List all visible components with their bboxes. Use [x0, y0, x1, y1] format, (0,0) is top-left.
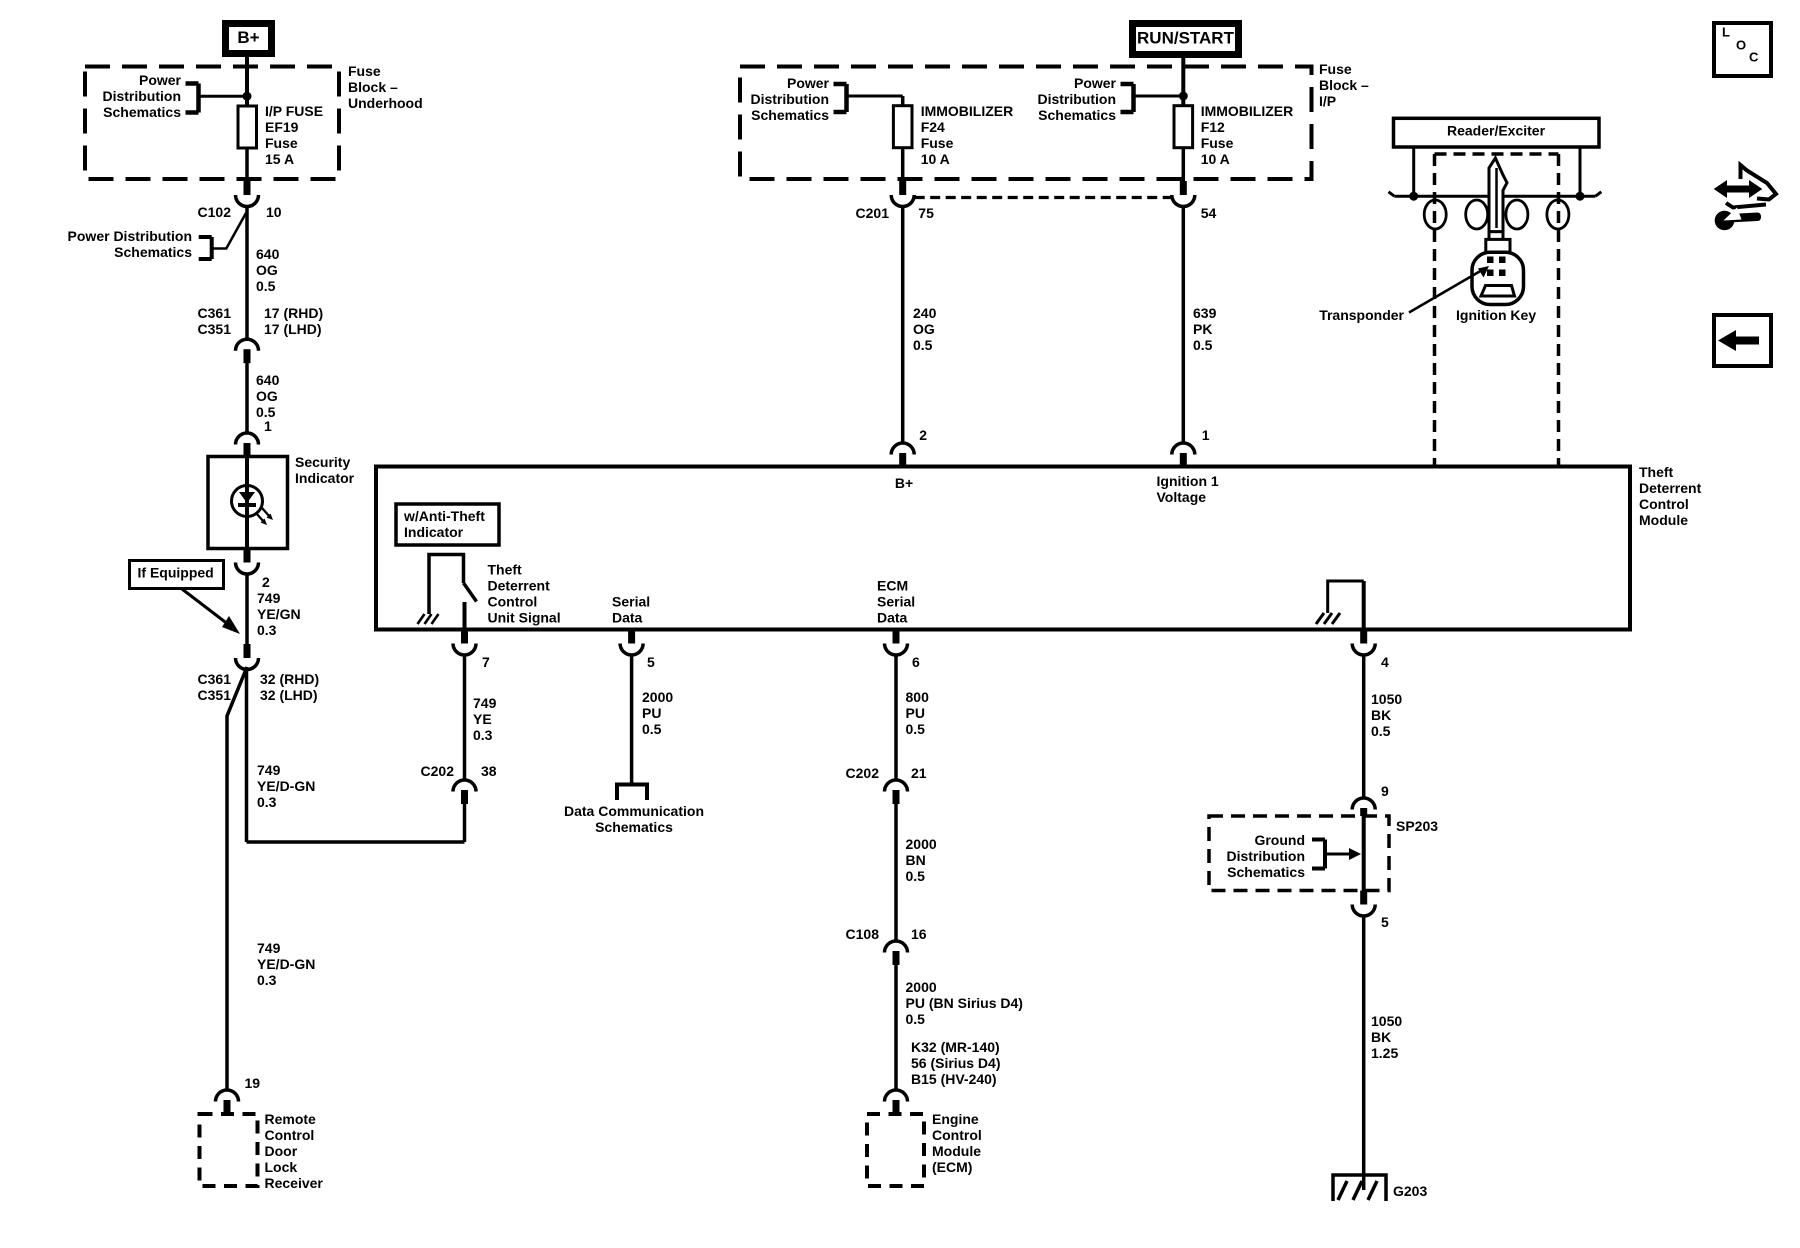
svg-text:Distribution: Distribution — [1226, 848, 1305, 864]
svg-text:749: 749 — [257, 590, 281, 606]
svg-text:19: 19 — [245, 1075, 261, 1091]
svg-text:17 (RHD): 17 (RHD) — [264, 305, 323, 321]
svg-text:Data: Data — [877, 610, 908, 626]
svg-text:B15 (HV-240): B15 (HV-240) — [911, 1071, 997, 1087]
svg-text:YE/D-GN: YE/D-GN — [257, 956, 315, 972]
svg-text:Ground: Ground — [1254, 832, 1305, 848]
svg-text:Schematics: Schematics — [1227, 864, 1305, 880]
svg-text:C202: C202 — [846, 765, 880, 781]
svg-text:BK: BK — [1371, 707, 1391, 723]
svg-text:56 (Sirius D4): 56 (Sirius D4) — [911, 1055, 1000, 1071]
svg-text:Power Distribution: Power Distribution — [68, 228, 192, 244]
svg-text:SP203: SP203 — [1396, 818, 1438, 834]
svg-text:YE: YE — [473, 711, 492, 727]
svg-text:2000: 2000 — [642, 689, 673, 705]
svg-text:Transponder: Transponder — [1319, 307, 1404, 323]
svg-text:RUN/START: RUN/START — [1137, 29, 1235, 48]
svg-text:5: 5 — [1381, 914, 1389, 930]
svg-text:749: 749 — [257, 762, 281, 778]
svg-text:Control: Control — [932, 1127, 982, 1143]
svg-text:9: 9 — [1381, 783, 1389, 799]
svg-text:Control: Control — [265, 1127, 315, 1143]
svg-text:10: 10 — [266, 204, 282, 220]
svg-text:Unit Signal: Unit Signal — [488, 610, 561, 626]
svg-text:Ignition Key: Ignition Key — [1456, 307, 1536, 323]
svg-text:Remote: Remote — [265, 1111, 317, 1127]
svg-text:Data Communication: Data Communication — [564, 803, 704, 819]
svg-text:0.5: 0.5 — [913, 337, 933, 353]
svg-text:C202: C202 — [421, 763, 455, 779]
svg-text:Fuse: Fuse — [921, 135, 954, 151]
svg-text:2: 2 — [919, 427, 927, 443]
svg-text:Schematics: Schematics — [114, 244, 192, 260]
svg-text:54: 54 — [1201, 205, 1217, 221]
svg-text:Theft: Theft — [488, 562, 523, 578]
svg-text:7: 7 — [482, 654, 490, 670]
svg-text:1: 1 — [264, 418, 272, 434]
svg-text:Engine: Engine — [932, 1111, 979, 1127]
svg-text:Control: Control — [488, 594, 538, 610]
svg-text:6: 6 — [912, 654, 920, 670]
svg-text:Deterrent: Deterrent — [1639, 480, 1702, 496]
svg-text:Fuse: Fuse — [265, 135, 298, 151]
svg-text:0.3: 0.3 — [473, 727, 493, 743]
svg-text:0.5: 0.5 — [1371, 723, 1391, 739]
svg-text:C102: C102 — [198, 204, 232, 220]
svg-text:BN: BN — [906, 852, 926, 868]
svg-text:17 (LHD): 17 (LHD) — [264, 321, 322, 337]
svg-text:Security: Security — [295, 454, 350, 470]
svg-text:Power: Power — [139, 72, 182, 88]
svg-text:Module: Module — [932, 1143, 981, 1159]
svg-text:Power: Power — [787, 75, 830, 91]
svg-text:0.3: 0.3 — [257, 972, 277, 988]
svg-text:Distribution: Distribution — [1037, 91, 1116, 107]
svg-text:0.5: 0.5 — [906, 868, 926, 884]
svg-text:C351: C351 — [198, 687, 232, 703]
svg-text:I/P FUSE: I/P FUSE — [265, 103, 323, 119]
svg-text:Fuse: Fuse — [1201, 135, 1234, 151]
svg-text:YE/GN: YE/GN — [257, 606, 301, 622]
svg-text:OG: OG — [256, 388, 278, 404]
svg-text:OG: OG — [913, 321, 935, 337]
svg-text:(ECM): (ECM) — [932, 1159, 972, 1175]
svg-text:Module: Module — [1639, 512, 1688, 528]
svg-text:0.3: 0.3 — [257, 622, 277, 638]
svg-text:Schematics: Schematics — [1038, 107, 1116, 123]
svg-text:G203: G203 — [1393, 1183, 1427, 1199]
svg-text:Serial: Serial — [612, 594, 650, 610]
svg-text:B+: B+ — [237, 28, 259, 47]
svg-text:Indicator: Indicator — [295, 470, 355, 486]
svg-text:Schematics: Schematics — [751, 107, 829, 123]
svg-text:4: 4 — [1381, 654, 1389, 670]
svg-text:0.5: 0.5 — [1193, 337, 1213, 353]
svg-text:640: 640 — [256, 372, 280, 388]
svg-text:240: 240 — [913, 305, 937, 321]
svg-text:F24: F24 — [921, 119, 945, 135]
svg-text:C361: C361 — [198, 305, 232, 321]
svg-text:C351: C351 — [198, 321, 232, 337]
svg-text:I/P: I/P — [1319, 93, 1336, 109]
svg-text:749: 749 — [473, 695, 497, 711]
svg-text:C108: C108 — [846, 926, 880, 942]
svg-text:PK: PK — [1193, 321, 1212, 337]
svg-text:0.5: 0.5 — [256, 278, 276, 294]
svg-text:Door: Door — [265, 1143, 298, 1159]
svg-text:32 (RHD): 32 (RHD) — [260, 671, 319, 687]
svg-text:75: 75 — [918, 205, 934, 221]
svg-text:BK: BK — [1371, 1029, 1391, 1045]
svg-text:21: 21 — [911, 765, 927, 781]
svg-text:If Equipped: If Equipped — [138, 565, 214, 581]
svg-text:Indicator: Indicator — [404, 524, 464, 540]
svg-text:1050: 1050 — [1371, 691, 1402, 707]
svg-text:749: 749 — [257, 940, 281, 956]
svg-text:15 A: 15 A — [265, 151, 294, 167]
svg-text:Voltage: Voltage — [1157, 489, 1207, 505]
svg-text:Distribution: Distribution — [750, 91, 829, 107]
svg-text:w/Anti-Theft: w/Anti-Theft — [403, 508, 485, 524]
svg-text:Underhood: Underhood — [348, 95, 423, 111]
svg-text:Deterrent: Deterrent — [488, 578, 551, 594]
svg-text:K32 (MR-140): K32 (MR-140) — [911, 1039, 1000, 1055]
svg-text:C: C — [1749, 49, 1759, 64]
svg-text:Lock: Lock — [265, 1159, 298, 1175]
svg-text:639: 639 — [1193, 305, 1217, 321]
svg-text:Reader/Exciter: Reader/Exciter — [1447, 123, 1546, 139]
svg-text:5: 5 — [647, 654, 655, 670]
svg-text:0.3: 0.3 — [257, 794, 277, 810]
svg-text:Fuse: Fuse — [1319, 61, 1352, 77]
svg-text:16: 16 — [911, 926, 927, 942]
svg-text:O: O — [1736, 37, 1746, 52]
svg-text:PU (BN Sirius D4): PU (BN Sirius D4) — [906, 995, 1023, 1011]
svg-text:38: 38 — [481, 763, 497, 779]
svg-text:1: 1 — [1202, 427, 1210, 443]
svg-text:2000: 2000 — [906, 979, 937, 995]
svg-text:1.25: 1.25 — [1371, 1045, 1398, 1061]
svg-text:Fuse: Fuse — [348, 63, 381, 79]
svg-text:2: 2 — [262, 574, 270, 590]
svg-text:EF19: EF19 — [265, 119, 299, 135]
svg-text:F12: F12 — [1201, 119, 1225, 135]
svg-text:L: L — [1722, 24, 1730, 39]
svg-text:ECM: ECM — [877, 578, 908, 594]
svg-text:C361: C361 — [198, 671, 232, 687]
svg-text:800: 800 — [906, 689, 930, 705]
svg-text:Serial: Serial — [877, 594, 915, 610]
svg-text:Schematics: Schematics — [595, 819, 673, 835]
svg-text:1050: 1050 — [1371, 1013, 1402, 1029]
svg-text:32 (LHD): 32 (LHD) — [260, 687, 318, 703]
svg-text:IMMOBILIZER: IMMOBILIZER — [921, 103, 1014, 119]
svg-text:2000: 2000 — [906, 836, 937, 852]
svg-text:Theft: Theft — [1639, 464, 1674, 480]
svg-text:Power: Power — [1074, 75, 1117, 91]
svg-text:PU: PU — [906, 705, 925, 721]
svg-text:B+: B+ — [895, 475, 913, 491]
svg-text:Block –: Block – — [1319, 77, 1369, 93]
svg-text:10 A: 10 A — [1201, 151, 1230, 167]
svg-text:Data: Data — [612, 610, 643, 626]
svg-text:Distribution: Distribution — [102, 88, 181, 104]
svg-text:0.5: 0.5 — [906, 721, 926, 737]
svg-text:0.5: 0.5 — [642, 721, 662, 737]
svg-text:0.5: 0.5 — [906, 1011, 926, 1027]
svg-text:C201: C201 — [856, 205, 890, 221]
svg-text:Schematics: Schematics — [103, 104, 181, 120]
svg-text:YE/D-GN: YE/D-GN — [257, 778, 315, 794]
svg-text:OG: OG — [256, 262, 278, 278]
svg-text:10 A: 10 A — [921, 151, 950, 167]
svg-text:640: 640 — [256, 246, 280, 262]
svg-text:PU: PU — [642, 705, 661, 721]
svg-text:Block –: Block – — [348, 79, 398, 95]
svg-text:Control: Control — [1639, 496, 1689, 512]
svg-text:Receiver: Receiver — [265, 1175, 324, 1191]
svg-text:Ignition 1: Ignition 1 — [1157, 473, 1219, 489]
svg-text:IMMOBILIZER: IMMOBILIZER — [1201, 103, 1294, 119]
